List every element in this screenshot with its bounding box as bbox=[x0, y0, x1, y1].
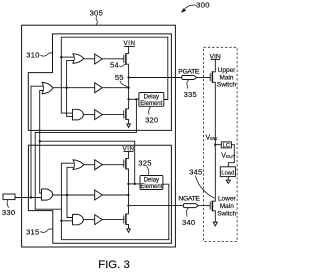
svg-text:OUT: OUT bbox=[226, 154, 236, 159]
svg-text:Switch: Switch bbox=[217, 211, 237, 218]
svg-text:325: 325 bbox=[138, 158, 151, 167]
svg-text:SW: SW bbox=[210, 136, 218, 141]
svg-text:345: 345 bbox=[189, 167, 202, 176]
svg-text:Lower: Lower bbox=[218, 196, 237, 203]
svg-text:Main: Main bbox=[219, 74, 233, 81]
svg-text:FIG. 3: FIG. 3 bbox=[98, 259, 130, 271]
svg-text:Delay: Delay bbox=[144, 94, 159, 100]
svg-text:55: 55 bbox=[115, 73, 124, 82]
svg-text:335: 335 bbox=[184, 90, 197, 99]
svg-text:Load: Load bbox=[221, 170, 234, 176]
svg-text:Delay: Delay bbox=[144, 178, 159, 184]
svg-text:330: 330 bbox=[2, 208, 15, 217]
svg-text:LC: LC bbox=[223, 143, 230, 149]
svg-text:NGATE: NGATE bbox=[178, 195, 200, 202]
svg-text:Element: Element bbox=[140, 101, 162, 107]
svg-text:310: 310 bbox=[26, 50, 39, 59]
svg-text:320: 320 bbox=[145, 115, 158, 124]
svg-text:315: 315 bbox=[26, 227, 39, 236]
svg-text:Main: Main bbox=[220, 203, 234, 210]
svg-text:Switch: Switch bbox=[217, 82, 237, 89]
svg-text:54: 54 bbox=[110, 61, 119, 70]
svg-text:305: 305 bbox=[90, 9, 103, 18]
svg-text:PGATE: PGATE bbox=[178, 69, 200, 76]
svg-text:Upper: Upper bbox=[218, 67, 237, 74]
svg-text:300: 300 bbox=[196, 1, 209, 10]
svg-text:Element: Element bbox=[140, 184, 162, 190]
svg-text:340: 340 bbox=[182, 218, 195, 227]
